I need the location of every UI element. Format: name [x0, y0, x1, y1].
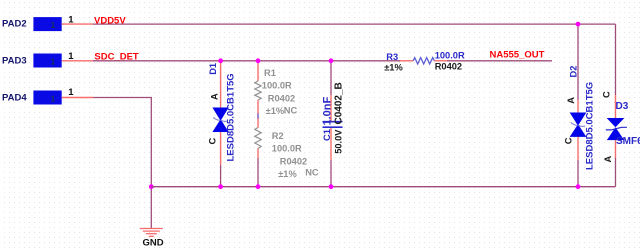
resistor R3	[384, 50, 465, 72]
svg-text:1: 1	[51, 58, 56, 67]
svg-text:LESD8D5.0CB1T5G: LESD8D5.0CB1T5G	[226, 73, 237, 161]
junction D1 bottom	[218, 184, 223, 189]
svg-text:A: A	[603, 156, 613, 163]
svg-text:NC: NC	[284, 106, 298, 116]
svg-text:PAD2: PAD2	[2, 19, 27, 30]
svg-text:C1: C1	[322, 129, 332, 141]
svg-text:C0402_B: C0402_B	[334, 82, 345, 124]
svg-text:R0402: R0402	[268, 93, 295, 103]
svg-text:100.0R: 100.0R	[435, 50, 465, 60]
svg-text:±1%: ±1%	[266, 106, 285, 116]
svg-text:1.0nF: 1.0nF	[321, 96, 333, 125]
ground symbol	[140, 229, 163, 237]
svg-text:PAD4: PAD4	[2, 92, 27, 103]
resistor R1/R2 branch wire	[257, 61, 259, 187]
svg-text:C: C	[208, 138, 218, 145]
pad PAD3	[2, 54, 62, 68]
capacitor C1	[321, 82, 344, 154]
svg-text:A: A	[210, 93, 220, 100]
svg-text:C: C	[602, 91, 612, 98]
resistor R2	[255, 128, 319, 180]
junction C1 top	[329, 58, 334, 63]
svg-text:±1%: ±1%	[384, 62, 403, 72]
diode D1 branch wire	[220, 61, 222, 187]
svg-text:R1: R1	[264, 68, 276, 78]
capacitor C1 branch wire	[330, 61, 332, 187]
svg-text:R0402: R0402	[435, 61, 462, 71]
junction R1 top	[256, 58, 261, 63]
svg-text:1: 1	[51, 95, 56, 104]
TVS diode D1	[208, 63, 237, 162]
svg-text:50.0V: 50.0V	[334, 129, 344, 154]
TVS diode D3	[602, 91, 640, 163]
svg-text:VDD5V: VDD5V	[94, 16, 126, 27]
wire bottom horizontal	[151, 186, 615, 188]
svg-text:1: 1	[51, 21, 56, 30]
svg-text:PAD3: PAD3	[2, 55, 27, 66]
svg-text:A: A	[566, 97, 576, 104]
junction D1 top	[218, 58, 223, 63]
svg-text:R0402: R0402	[280, 156, 307, 166]
svg-text:100.0R: 100.0R	[272, 144, 302, 154]
junction GND branch	[149, 184, 154, 189]
junction C1 bottom	[329, 184, 334, 189]
resistor R1	[255, 68, 298, 116]
wire NA555_OUT segment	[447, 60, 552, 62]
svg-text:R3: R3	[386, 52, 398, 62]
pin 1 of PAD3	[62, 51, 93, 62]
junction R2 bottom	[256, 184, 261, 189]
wire SDC_DET left segment	[93, 60, 400, 62]
junction D2 top	[576, 22, 581, 27]
svg-text:LESD8D5.0CB1T5G: LESD8D5.0CB1T5G	[585, 82, 596, 170]
pad PAD2	[2, 17, 62, 31]
svg-text:C: C	[564, 137, 574, 144]
svg-text:±1%: ±1%	[278, 169, 297, 179]
svg-text:NC: NC	[305, 167, 319, 177]
svg-text:NA555_OUT: NA555_OUT	[490, 49, 545, 60]
pin 1 of PAD2	[62, 14, 93, 25]
wire VDD5V horizontal	[93, 23, 616, 25]
pad PAD4	[2, 91, 62, 105]
svg-text:D3: D3	[616, 101, 629, 112]
pin overlap mark between R1 and R2	[257, 113, 259, 119]
svg-text:SMF6.: SMF6.	[616, 136, 640, 147]
svg-text:R2: R2	[272, 131, 284, 141]
diode D3 branch wire	[615, 24, 617, 187]
pin lead R3 pin2	[434, 60, 447, 62]
svg-text:GND: GND	[143, 238, 164, 249]
svg-text:1: 1	[68, 87, 74, 98]
pin 1 of PAD4	[62, 87, 93, 98]
junction D2 bottom	[576, 184, 581, 189]
svg-text:100.0R: 100.0R	[262, 80, 292, 90]
svg-text:D2: D2	[569, 66, 579, 78]
wire PAD4 to GND corner	[93, 98, 151, 229]
pin lead R3 pin1	[400, 60, 413, 62]
diode D2 branch wire	[577, 24, 579, 187]
svg-text:D1: D1	[208, 63, 218, 75]
TVS diode D2	[564, 66, 596, 170]
